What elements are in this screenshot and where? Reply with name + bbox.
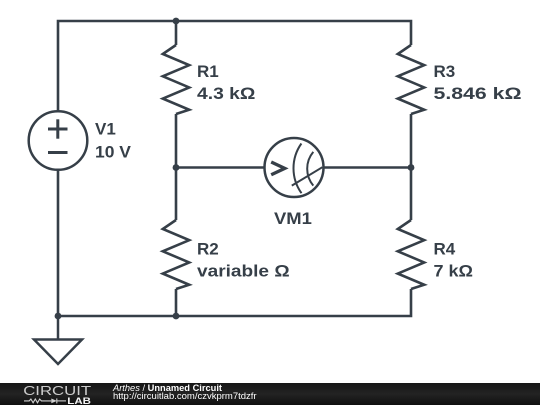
svg-text:4.3 kΩ: 4.3 kΩ: [197, 84, 255, 103]
svg-text:R2: R2: [197, 240, 219, 259]
wire top rail from V1 to R3: [58, 21, 411, 111]
wire node A to VM1: [176, 166, 265, 169]
wire R3 to node B: [410, 114, 413, 168]
svg-text:V1: V1: [95, 120, 116, 139]
svg-text:10 V: 10 V: [95, 143, 132, 162]
wire VM1 to node B: [324, 166, 412, 169]
junction at R2 bottom: [173, 313, 180, 320]
voltmeter VM1: [265, 138, 324, 197]
svg-text:5.846 kΩ: 5.846 kΩ: [434, 84, 522, 103]
wire left rail lower: [57, 170, 60, 316]
svg-text:LAB: LAB: [67, 396, 91, 405]
wire R2 top stub: [175, 168, 178, 221]
resistor R4: [398, 220, 424, 289]
wire R2 bottom stub: [175, 289, 178, 316]
resistor R2: [163, 220, 189, 289]
footer bar: [0, 383, 540, 405]
svg-text:7 kΩ: 7 kΩ: [434, 262, 474, 281]
wire R1 to node A: [175, 114, 178, 168]
svg-text:VM1: VM1: [274, 209, 312, 228]
footer line 2: [113, 392, 257, 402]
svg-text:variable Ω: variable Ω: [197, 262, 290, 281]
CircuitLab logo: [0, 383, 110, 405]
voltage source V1: [29, 111, 88, 170]
wire bottom rail from ground to R4: [58, 289, 411, 316]
wire R4 top stub: [410, 168, 413, 221]
resistor R3: [398, 45, 424, 114]
svg-text:R4: R4: [434, 240, 456, 259]
ground: [34, 316, 82, 364]
resistor R1: [163, 45, 189, 114]
junction node B: [408, 164, 415, 171]
wire R1 top stub: [175, 21, 178, 45]
svg-text:R3: R3: [434, 62, 456, 81]
junction at ground: [55, 313, 62, 320]
junction at R1 top: [173, 18, 180, 25]
svg-text:R1: R1: [197, 62, 219, 81]
footer line 1: [113, 384, 222, 393]
junction node A: [173, 164, 180, 171]
